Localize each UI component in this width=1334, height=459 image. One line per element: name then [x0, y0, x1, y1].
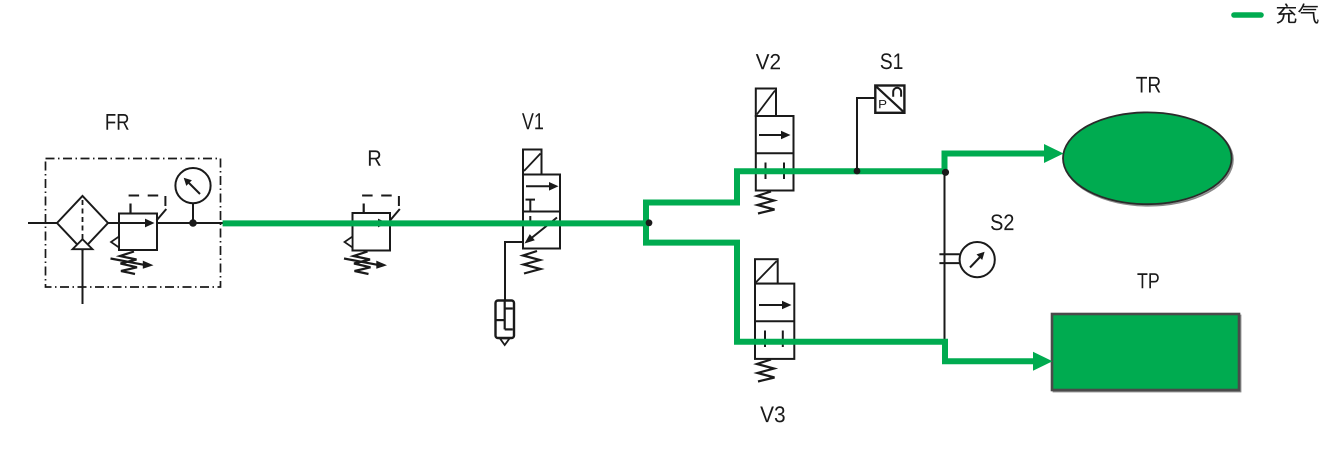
pressure switch S1 wire	[857, 98, 875, 171]
regulator (in FR) body	[119, 214, 157, 251]
tire TR shadow	[1064, 114, 1233, 206]
label S2	[991, 214, 1013, 230]
tire TR	[1063, 112, 1232, 204]
regulator R vent triangle	[345, 237, 353, 248]
valve V1 solenoid	[523, 150, 542, 175]
regulator (in FR) vent triangle	[111, 237, 119, 248]
regulator (in FR) flow arrow	[119, 222, 146, 224]
regulator R body	[353, 213, 391, 251]
label V1	[522, 113, 543, 129]
legend text 充气	[1277, 3, 1319, 23]
regulator (in FR) spring	[120, 252, 137, 275]
label V3	[760, 406, 784, 422]
valve V1 return spring	[523, 251, 541, 274]
green arrow into TR	[1044, 144, 1064, 163]
valve V3 return spring	[757, 360, 775, 382]
green arrow into TP	[1033, 352, 1053, 371]
wire input line	[28, 222, 57, 224]
pressure switch S1 contact arc	[893, 88, 901, 97]
node at S1 connection	[854, 168, 861, 175]
wire drain line	[82, 250, 84, 304]
valve V2 solenoid	[756, 89, 776, 117]
regulator R adjustment diagonal	[390, 209, 400, 221]
pressure switch S1 letter P	[879, 100, 886, 108]
node at S2 top connection	[942, 169, 949, 176]
valve V3 flow arrow (top box)	[759, 304, 783, 306]
legend swatch	[1234, 12, 1261, 18]
valve V1 port dash (bottom box)	[529, 216, 531, 225]
regulator (in FR) pilot dashed box	[129, 204, 131, 214]
gauge S2 tap marks	[939, 253, 959, 255]
wire V1 exhaust line	[505, 242, 523, 301]
node at gauge stem	[189, 219, 197, 227]
silencer (below V1)	[496, 301, 515, 339]
FR unit enclosure (dash-dot box)	[46, 159, 221, 288]
tank TP	[1052, 314, 1239, 390]
gauge S2	[960, 242, 995, 277]
wire filter to regulator	[108, 222, 119, 224]
green line upper branch to V2 and TR	[646, 154, 1046, 227]
wire regulator to FR box edge	[157, 222, 224, 224]
valve V2 flow arrow (top box)	[759, 134, 782, 136]
label TR	[1136, 77, 1160, 93]
valve V3 solenoid	[755, 259, 778, 283]
valve V2 body	[756, 116, 794, 191]
label R	[369, 150, 381, 165]
valve V3 body	[755, 284, 794, 359]
regulator (in FR) adjustment diagonal	[157, 209, 167, 221]
valve V1 body	[523, 175, 560, 249]
valve V2 return spring	[757, 192, 775, 214]
silencer drain triangle	[500, 339, 510, 346]
valve V1 blocked port T	[526, 199, 536, 201]
valve V1 exhaust diagonal arrow	[529, 218, 557, 241]
sensor S2 tap line	[944, 172, 946, 341]
regulator R pilot dashed box	[363, 204, 365, 214]
pressure gauge (in FR) stem	[192, 203, 194, 223]
label S1	[881, 53, 903, 69]
regulator (in FR) spring adjust arrow	[111, 259, 145, 265]
label FR	[106, 114, 128, 130]
regulator R flow arrow	[353, 222, 380, 224]
filter water separator triangle	[73, 239, 93, 249]
pressure gauge (in FR)	[175, 168, 210, 203]
regulator R spring	[354, 252, 371, 275]
tank TP shadow	[1054, 316, 1241, 392]
green line lower branch to V3 and TP	[646, 220, 1035, 361]
regulator R spring adjust arrow	[344, 259, 378, 265]
green supply line (main)	[223, 220, 649, 226]
valve V3 port ticks (bottom box)	[764, 331, 766, 348]
pressure switch S1 box	[875, 86, 904, 113]
label V2	[756, 54, 780, 69]
node at branch split	[646, 219, 653, 226]
valve V1 flow arrow (top box)	[526, 185, 550, 187]
valve V2 port ticks (bottom box)	[765, 163, 767, 180]
label TP	[1137, 273, 1158, 288]
filter F (diamond)	[57, 196, 108, 250]
